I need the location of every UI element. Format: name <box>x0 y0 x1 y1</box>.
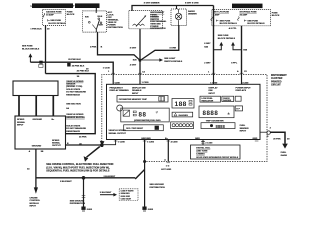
svg-text:8 GRY: 8 GRY <box>130 47 137 49</box>
svg-text:SEE FUSE: SEE FUSE <box>22 46 33 48</box>
svg-text:2 BLK/WHT: 2 BLK/WHT <box>60 181 72 183</box>
svg-text:(SPEEDOMETER) FUEL DATA: (SPEEDOMETER) FUEL DATA <box>134 119 161 122</box>
junction blob at cluster edge <box>100 143 104 147</box>
label SEE FUSE BLOCK DETAILS (left) <box>22 46 40 51</box>
wire: ground bus <box>36 177 135 179</box>
svg-text:1 C100: 1 C100 <box>103 68 111 70</box>
pin A / 2B labels <box>29 150 44 153</box>
I/P dimmer switch (dashed box) <box>129 11 163 29</box>
svg-text:4 C200: 4 C200 <box>171 141 179 144</box>
fuse GAUGES FUSE 10 AMP (dashed fuse block box) <box>43 10 67 26</box>
wire: gauges fuse drop <box>45 25 47 73</box>
svg-text:ODO / TRIP RESET: ODO / TRIP RESET <box>126 128 144 130</box>
wire: ground diagonal to bus <box>135 170 144 180</box>
wire: splice down to cluster pin <box>139 60 141 74</box>
svg-text:C100 IP HARN: C100 IP HARN <box>121 190 134 193</box>
svg-text:BLOCK: BLOCK <box>67 14 75 16</box>
display: odometer memory chip box <box>117 96 168 103</box>
svg-text:GAUGES: GAUGES <box>223 99 232 102</box>
svg-text:RADIO: RADIO <box>188 10 195 13</box>
labels at B+ wire end <box>161 159 171 171</box>
wire: stub from hot bus to ignition switch <box>95 8 97 11</box>
svg-text:8 GRY DIMMER: 8 GRY DIMMER <box>144 3 160 5</box>
svg-text:DISPLAY: DISPLAY <box>209 87 219 90</box>
label GRD right pin <box>253 138 259 141</box>
svg-text:INPUT: INPUT <box>132 93 139 95</box>
svg-text:BLOCK DETAILS: BLOCK DETAILS <box>22 48 40 51</box>
arrow: down to cruise control <box>34 187 38 193</box>
svg-text:SEE FUSE: SEE FUSE <box>220 20 231 22</box>
svg-text:SWITCH DETAILS: SWITCH DETAILS <box>164 60 183 63</box>
svg-text:1 G: 1 G <box>166 166 170 168</box>
cruise control text <box>30 197 41 207</box>
pin stub x=213.5 <box>208 71 218 84</box>
splice S20 junction <box>133 59 142 62</box>
svg-text:HOT GRD: HOT GRD <box>161 169 171 171</box>
label FUSE BLOCK (left) <box>67 11 75 16</box>
VSS buffer box <box>15 116 66 149</box>
splice square on 25 PNK BLK <box>67 63 70 67</box>
wire: tap down to radio lamp box <box>176 6 178 10</box>
svg-text:1 C200: 1 C200 <box>147 142 155 144</box>
pin stub x=113 <box>108 71 121 84</box>
svg-text:A C200: A C200 <box>241 81 249 84</box>
connector ticks <box>82 196 86 198</box>
display: fuel 8888 <box>199 106 234 118</box>
display: telltale circles <box>171 122 194 129</box>
svg-text:HOT AT ALL TIMES: HOT AT ALL TIMES <box>76 4 100 8</box>
svg-text:8 GRY 8 ORN: 8 GRY 8 ORN <box>185 3 199 5</box>
svg-text:FUEL: FUEL <box>281 152 287 154</box>
svg-text:25 PNK: 25 PNK <box>79 137 87 139</box>
label SEE FUSE BLOCK DETAILS (right) <box>218 35 236 40</box>
wire: dimmer switch output down <box>139 29 141 61</box>
pin into tone chime box <box>201 140 205 146</box>
connector detail dashed box <box>119 189 138 201</box>
wire: buffer ground down to bus <box>35 149 37 188</box>
svg-text:DIMMER: DIMMER <box>188 13 197 15</box>
svg-text:ODOMETER MEMORY CHIP: ODOMETER MEMORY CHIP <box>119 99 148 101</box>
wire: stop/haz 8 PPL drop <box>241 26 243 75</box>
cluster inner solid box <box>107 84 261 139</box>
pin 1 C200 (speed) <box>114 141 126 144</box>
label B+ pin <box>165 138 178 144</box>
svg-text:INST LPS FUSE: INST LPS FUSE <box>213 12 230 14</box>
label SEE GROUND DISTRIBUTION (right) <box>150 184 166 189</box>
label GRD pin <box>195 138 213 145</box>
label FUSE BLOCK (right) <box>272 12 280 17</box>
svg-text:DISABLE: DISABLE <box>132 89 142 92</box>
svg-text:BULB: BULB <box>98 16 103 18</box>
svg-text:1 C200: 1 C200 <box>210 82 218 84</box>
svg-text:GAUGES FUSE: GAUGES FUSE <box>46 11 62 14</box>
buffer pin labels <box>17 119 61 147</box>
svg-text:AND TONE: AND TONE <box>196 150 208 153</box>
svg-text:INPUT: INPUT <box>17 124 24 126</box>
cluster top pin names <box>110 87 252 95</box>
display: speedometer <box>121 108 169 122</box>
arrow: up to fuse block (left) <box>29 53 33 62</box>
svg-text:SEE FUSE: SEE FUSE <box>50 20 61 22</box>
svg-text:OUTPUT: OUTPUT <box>52 145 61 147</box>
svg-text:20 PNK: 20 PNK <box>273 139 281 141</box>
svg-text:GRD: GRD <box>195 138 200 140</box>
wire: 8 GRY top run from dimmer switch to right side <box>132 6 214 11</box>
svg-text:25 PNK BLK: 25 PNK BLK <box>68 59 81 61</box>
dimmer switch text <box>150 12 167 30</box>
wire: splice down to ground <box>83 178 85 207</box>
display: odometer 188 <box>172 99 194 109</box>
arrow: speed signal to ECM/cruise <box>84 147 100 162</box>
wire: B+ pin down to dashed line <box>167 140 169 162</box>
svg-text:SIGNAL: SIGNAL <box>52 142 61 145</box>
label INSTRUMENT CLUSTER PRINTED CIRCUIT <box>271 74 287 87</box>
svg-text:BLOCK DETAILS: BLOCK DETAILS <box>218 37 236 40</box>
radio text <box>188 10 197 16</box>
labels 8 GRY / S44 <box>204 43 211 48</box>
indicator box: CHECK GAUGES <box>222 96 234 102</box>
connector circle on dashed edge <box>267 128 272 139</box>
label FUEL GAGE <box>281 152 288 157</box>
digital cluster outer dashed outline <box>102 75 267 162</box>
label FUEL SENDER INPUT <box>240 125 249 132</box>
photocell circle <box>117 105 123 111</box>
svg-text:SIGNAL OUTPUT: SIGNAL OUTPUT <box>109 132 127 135</box>
fuse block right (INST LPS FUSE + STOP/HAZ FUSE dashed box) <box>211 10 271 26</box>
pin: fuel sender output <box>260 131 267 133</box>
svg-text:10 AMP: 10 AMP <box>46 13 54 16</box>
labels B / 24 on output wire <box>67 143 82 146</box>
VSS buffer text block <box>66 114 86 133</box>
wire: cluster ground down <box>144 140 146 207</box>
svg-text:2 GRY: 2 GRY <box>204 63 211 65</box>
svg-text:CHIMES: CHIMES <box>196 154 205 156</box>
svg-text:DISTRIBUTION: DISTRIBUTION <box>150 187 166 189</box>
svg-text:1 C200: 1 C200 <box>118 142 126 144</box>
indicator box small <box>235 96 241 101</box>
svg-text:GRD: GRD <box>253 138 258 140</box>
label 20 PNK 30 <box>273 139 290 141</box>
svg-text:SEE GROUND: SEE GROUND <box>70 200 85 202</box>
connector blob at arrow junction <box>39 61 43 68</box>
svg-text:25 PNK BLK: 25 PNK BLK <box>72 65 85 67</box>
svg-text:GAGE: GAGE <box>281 154 288 157</box>
svg-text:DISPLAY DIM: DISPLAY DIM <box>132 87 146 90</box>
small box: E F <box>235 106 242 111</box>
svg-text:20 AMP: 20 AMP <box>240 13 248 16</box>
svg-text:DISPLAY DIMMING: DISPLAY DIMMING <box>110 89 129 92</box>
svg-text:SIGNAL: SIGNAL <box>17 121 26 124</box>
svg-text:SEE CRUISE CONTROL, ELECTRONIC: SEE CRUISE CONTROL, ELECTRONIC FUEL INJE… <box>46 163 113 172</box>
svg-text:3 PNK: 3 PNK <box>90 47 97 49</box>
svg-text:GAUGES: GAUGES <box>179 114 189 117</box>
svg-text:SEE GROUND: SEE GROUND <box>150 184 165 186</box>
svg-text:BLOCK DETAILS: BLOCK DETAILS <box>48 22 66 25</box>
arrow: up-right to fuse block <box>231 42 241 50</box>
svg-text:GROUND: GROUND <box>141 138 151 140</box>
svg-text:G202: G202 <box>87 209 93 211</box>
svg-text:GROUND: GROUND <box>33 119 43 121</box>
svg-text:BLOCK DETAILS: BLOCK DETAILS <box>247 22 265 25</box>
wire: buffer speed signal output to cluster <box>66 144 102 146</box>
ground G202 (left) <box>81 207 92 212</box>
pin stub x=241.5 <box>237 70 249 84</box>
wire: 25 PNK BLK lower loop to buffer B+ <box>46 74 96 134</box>
svg-text:8 PPL: 8 PPL <box>231 63 238 65</box>
header bus: HOT IN RUN black box <box>30 3 75 8</box>
svg-text:GROUND: GROUND <box>32 146 42 148</box>
svg-text:4 GRY: 4 GRY <box>130 63 137 66</box>
label GROUND pin <box>141 138 155 144</box>
svg-text:2B: 2B <box>41 151 44 153</box>
VSS text block <box>66 81 86 110</box>
svg-text:DISPLAYS: DISPLAYS <box>236 89 247 92</box>
wire: long 8 GRY drop at right into cluster <box>213 6 215 75</box>
label VEHICLE SPEED SIGNAL OUTPUT <box>109 130 127 135</box>
arrow: see light switch details <box>142 58 183 63</box>
svg-text:88: 88 <box>139 112 147 119</box>
svg-text:8888: 8888 <box>203 110 219 117</box>
wire: radio lamp down + left to splice <box>141 26 179 61</box>
ignition switch (dashed box) <box>83 11 107 32</box>
svg-text:DIGITAL DIAL: DIGITAL DIAL <box>196 147 211 150</box>
svg-text:INPUT: INPUT <box>240 130 247 132</box>
svg-text:8888: 8888 <box>216 124 226 129</box>
svg-text:2 C100: 2 C100 <box>205 142 213 144</box>
svg-text:INDICATOR: INDICATOR <box>202 100 214 103</box>
ground G (right) <box>142 207 153 212</box>
wire: ignition output down/right <box>98 32 141 60</box>
wire: 20 PNK to fuel gage <box>270 132 288 148</box>
svg-text:G202: G202 <box>148 209 154 211</box>
arrow: up-left to fuse block <box>214 42 224 50</box>
wires: VSS to buffer (3) <box>19 96 53 117</box>
svg-text:START: START <box>98 24 104 27</box>
see cruise control paragraph <box>46 163 113 172</box>
header bus: HOT AT ALL TIMES black box (left) <box>75 3 100 8</box>
svg-text:25 PNK BLK: 25 PNK BLK <box>77 70 90 72</box>
ignition switch side labels <box>108 11 124 29</box>
label 2 BLK/WHT + arrow into connector detail box <box>100 192 117 197</box>
display: gauges warning <box>172 112 193 117</box>
label 1 PNK BLK 39 <box>30 29 50 31</box>
label SEE GROUND DISTRIBUTION (left) <box>70 200 86 205</box>
svg-text:SOLID STATE INTEGRATED CIRCUIT: SOLID STATE INTEGRATED CIRCUIT MODULE <box>196 156 239 159</box>
svg-text:BLOCK: BLOCK <box>272 15 280 17</box>
header bus: HOT AT ALL TIMES black box (right) <box>232 4 263 9</box>
svg-text:HOT AT ALL TIMES: HOT AT ALL TIMES <box>236 4 260 8</box>
indicator box: LOW FUEL <box>200 96 221 102</box>
svg-text:C200: C200 <box>115 82 121 84</box>
svg-text:1 PNK BLK: 1 PNK BLK <box>30 29 42 31</box>
svg-text:8 GRY: 8 GRY <box>204 43 211 45</box>
svg-text:1 C200: 1 C200 <box>142 82 150 84</box>
svg-text:SEE FUSE: SEE FUSE <box>218 35 229 37</box>
svg-text:°F: °F <box>156 111 159 115</box>
wire: into cluster speed input pin <box>102 140 116 145</box>
svg-text:SEE FUSE: SEE FUSE <box>247 20 258 22</box>
svg-text:SEE SECTION: SEE SECTION <box>66 104 81 106</box>
svg-text:C202 DASH: C202 DASH <box>121 197 132 200</box>
svg-text:INPUT: INPUT <box>209 93 216 95</box>
svg-text:DISTRIBUTION: DISTRIBUTION <box>70 203 86 205</box>
vehicle speed sensor box <box>13 81 58 96</box>
svg-text:FUSE: FUSE <box>272 12 278 14</box>
wire: 25 PNK BLK horizontal run to cluster <box>30 62 113 74</box>
digital dial / chimes info box <box>191 145 241 159</box>
svg-text:2 BLK/WHT: 2 BLK/WHT <box>100 192 112 194</box>
svg-text:2 BLK/WHT: 2 BLK/WHT <box>104 176 116 178</box>
svg-text:BLOCK DETAILS: BLOCK DETAILS <box>220 22 238 25</box>
outer outline end arrow <box>100 141 105 147</box>
splice blob on bus <box>82 176 86 180</box>
svg-text:HOT IN RUN, BULB TEST OR START: HOT IN RUN, BULB TEST OR START <box>30 4 75 8</box>
svg-text:8A: 8A <box>66 107 69 110</box>
svg-text:FUSE: FUSE <box>67 11 73 13</box>
svg-text:S204 ENG: S204 ENG <box>121 192 131 195</box>
svg-text:8 ORN: 8 ORN <box>170 48 177 50</box>
radio illumination lamp (dashed box) <box>171 9 187 26</box>
display: trip odometer digits <box>201 123 235 129</box>
svg-text:188: 188 <box>175 101 187 108</box>
junction blob on dashed line <box>143 160 146 163</box>
display: PRND gear box <box>124 125 164 131</box>
svg-text:STOP/HAZ FUSE: STOP/HAZ FUSE <box>240 11 258 14</box>
svg-text:SEE LIGHT: SEE LIGHT <box>164 58 176 60</box>
pin stub x=140 <box>138 72 149 85</box>
svg-text:A 8 PPL: A 8 PPL <box>229 27 238 30</box>
